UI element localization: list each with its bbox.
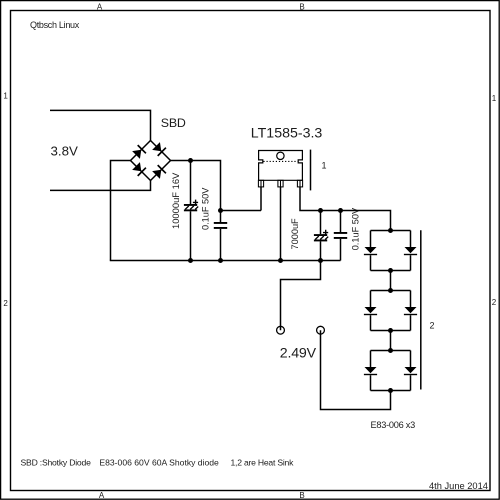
svg-text:SBD :Shotky Diode: SBD :Shotky Diode <box>21 458 92 468</box>
svg-text:A: A <box>99 491 105 500</box>
svg-text:1: 1 <box>492 94 497 103</box>
svg-text:7000uF: 7000uF <box>290 218 300 250</box>
svg-text:E83-006 60V 60A Shotky diode: E83-006 60V 60A Shotky diode <box>99 458 219 468</box>
svg-text:B: B <box>299 2 304 11</box>
svg-text:10000uF 16V: 10000uF 16V <box>170 172 181 229</box>
svg-text:2: 2 <box>492 298 497 307</box>
svg-text:2: 2 <box>430 320 435 330</box>
svg-text:B: B <box>299 491 304 500</box>
svg-text:1: 1 <box>3 92 8 101</box>
svg-text:2: 2 <box>3 299 8 308</box>
svg-text:4th June 2014: 4th June 2014 <box>429 481 488 491</box>
svg-text:Qtbsch Linux: Qtbsch Linux <box>30 20 80 30</box>
svg-text:0.1uF 50V: 0.1uF 50V <box>351 207 361 250</box>
svg-text:E83-006 x3: E83-006 x3 <box>371 420 416 430</box>
svg-text:3.8V: 3.8V <box>51 144 78 159</box>
svg-text:1,2 are Heat Sink: 1,2 are Heat Sink <box>231 458 295 468</box>
svg-text:SBD: SBD <box>161 116 186 130</box>
svg-text:2.49V: 2.49V <box>280 346 317 362</box>
svg-text:1: 1 <box>322 160 327 170</box>
svg-text:LT1585-3.3: LT1585-3.3 <box>251 125 323 141</box>
svg-text:A: A <box>97 2 103 11</box>
svg-text:0.1uF 50V: 0.1uF 50V <box>200 187 210 230</box>
